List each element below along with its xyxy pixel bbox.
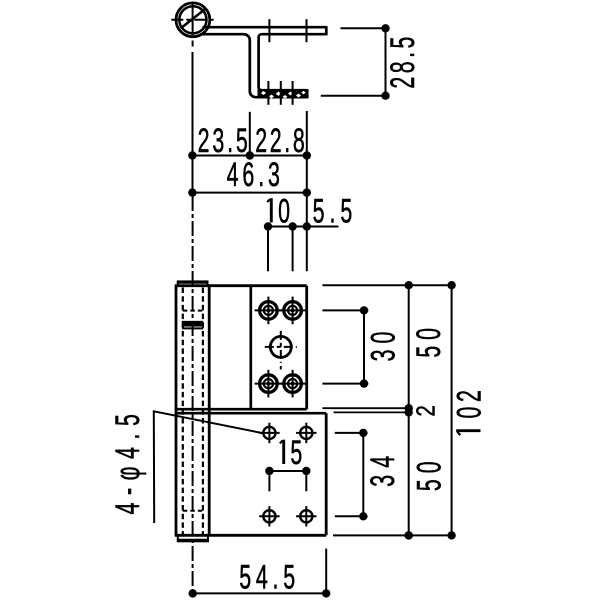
top view: hinge knuckle inner circle: [179, 6, 206, 33]
svg-text:28.5: 28.5: [384, 37, 422, 89]
upper plate countersunk hole top-left: [255, 297, 283, 325]
dim 54.5 right extension: [325, 549, 327, 594]
top view: hinge knuckle outer circle: [176, 3, 210, 37]
front view: pin head cap top: [178, 281, 208, 285]
upper plate countersunk hole bottom-left: [255, 370, 283, 398]
front view: top edge of knuckle and upper plate: [175, 284, 307, 287]
dim 30 extension bottom: [322, 383, 368, 385]
svg-text:34: 34: [364, 456, 402, 487]
top view: hole center tick on upper leaf flange at x 281: [280, 81, 282, 105]
extension below dim 10 left dot: [267, 231, 269, 272]
dim 10 dot left: [264, 222, 272, 230]
right dims: top extension line from plate top: [322, 284, 453, 286]
front view: lower plate top edge and knuckle joint line: [176, 412, 326, 415]
dim 102 dot top: [447, 281, 455, 289]
top view: vertical center line of knuckle: [192, 2, 194, 48]
dim 54.5 dot right: [322, 589, 330, 597]
front view: bottom edge of knuckle and lower plate: [175, 534, 326, 537]
dim 50 upper dot top: [405, 281, 413, 289]
dim 34 extension top: [335, 432, 368, 434]
front view: pin bottom cap thick bar: [177, 539, 209, 542]
dim 50 lower dot bottom: [405, 531, 413, 539]
center line extension from knuckle to 23.5 dim: [192, 52, 194, 193]
dim 54.5 dot left: [189, 589, 197, 597]
dim 15 extension below right: [305, 475, 307, 491]
dim 5.5 dot right: [303, 222, 311, 230]
dim 30 dot top: [360, 306, 368, 314]
upper plate countersunk hole top-right: [279, 297, 307, 325]
svg-text:30: 30: [364, 332, 402, 362]
dim 15 dimension line: [269, 470, 306, 472]
dim 46.3 dot right: [303, 188, 311, 196]
dim 34 dot bottom: [359, 512, 367, 520]
svg-text:50: 50: [410, 461, 448, 491]
dim 10/5.5 dot middle: [288, 222, 296, 230]
front view: lower plate right edge: [325, 413, 328, 535]
top view: hole center tick on lower leaf at x 306: [306, 19, 308, 42]
svg-text:2: 2: [450, 390, 488, 402]
lower plate hole top-left: [259, 423, 279, 443]
dim 46.3 dimension line: [192, 192, 306, 194]
text 15 : drawn 1 plus text 5: [280, 434, 302, 472]
text 102 rotated : drawn 1 plus text 02: [450, 390, 488, 435]
dim 30 dimension line: [363, 310, 365, 383]
dim 23.5 and 22.8 dimension line: [192, 155, 306, 157]
front view: knuckle right edge / plates left edge: [208, 286, 211, 536]
front view: line under retaining band: [182, 327, 203, 329]
dim 23.5/22.8 dot middle: [246, 151, 254, 159]
dim 46.3 dot left: [188, 188, 196, 196]
top view: lower leaf top surface line: [203, 26, 327, 29]
text 10 : drawn 1 plus text 0: [267, 192, 290, 230]
dim 34 extension bottom: [335, 515, 368, 517]
svg-text:2: 2: [411, 405, 440, 416]
front view: bend line of upper plate: [249, 286, 252, 410]
front view: hidden pin line right: [202, 288, 204, 535]
extension below dim 10 middle dot: [292, 231, 294, 272]
svg-text:54.5: 54.5: [239, 558, 295, 596]
svg-text:0: 0: [450, 407, 488, 419]
dim 15 dot right: [302, 467, 310, 475]
dim 2 extension upper: [322, 407, 408, 409]
dim 28.5 dimension line: [385, 28, 387, 95]
top view: hole center tick on upper leaf flange at x 268: [267, 81, 269, 105]
top view: hole center tick on lower leaf at x 269: [268, 19, 270, 42]
dim 50 lower bottom dot duplicate on ext: [405, 531, 413, 539]
dim 54.5 dimension line: [193, 592, 327, 594]
front view: pin bottom cap: [178, 535, 208, 541]
front view: pin head cap top thick bar: [177, 281, 209, 284]
top view: lower leaf bottom surface right portion curving into web right face then bottom flange top surface: [259, 34, 327, 90]
dim 102 dot bottom: [447, 531, 455, 539]
top view: upper leaf flange end cap: [306, 89, 309, 98]
dim 10 / 5.5 dimension line: [268, 226, 339, 228]
dim 30 dot bottom: [360, 379, 368, 387]
dim 23.5 dot left: [188, 151, 196, 159]
dim 28.5 extension line top: [341, 27, 390, 29]
dim 28.5 end dot top: [381, 24, 389, 32]
dim 15 dot left: [265, 467, 273, 475]
dim 2 extension lower: [334, 411, 409, 413]
top view: lower leaf bottom surface left portion curving into upper-leaf web left face then bottom flange bottom surface: [201, 34, 308, 97]
front view: upper plate bottom edge and knuckle joint line: [176, 408, 307, 411]
dim 2 dot lower: [405, 408, 413, 416]
bottom extension line from lower plate bottom: [333, 534, 454, 536]
leader line for 4-phi4.5 label: [154, 411, 263, 523]
dim 28.5 end dot bottom: [381, 92, 389, 100]
top view: serration marks on upper leaf flange: [258, 89, 308, 98]
svg-text:5.5: 5.5: [313, 192, 353, 230]
top view: pin slash mark: [181, 9, 206, 28]
lower plate hole bottom-right: [296, 506, 316, 526]
front view: main center line of pin axis: [192, 196, 194, 593]
dim 15 extension below left: [268, 475, 270, 491]
front view: pin retaining band: [183, 322, 203, 326]
front view: hidden pin shoulder lower: [183, 510, 203, 512]
lower plate hole bottom-left: [259, 506, 279, 526]
front view: upper plate right edge: [305, 286, 308, 410]
svg-text:4-φ4.5: 4-φ4.5: [109, 414, 147, 514]
lower plate hole top-right: [296, 423, 316, 443]
svg-text:5: 5: [290, 434, 302, 472]
dim 34 dot top: [359, 429, 367, 437]
extension line from web at x 249.8: [249, 112, 251, 158]
dim 50 upper dimension line: [408, 285, 410, 412]
dim 102 dimension line: [451, 285, 453, 535]
dim 30 extension top: [322, 309, 368, 311]
dim 34 dimension line: [362, 433, 364, 516]
dim 50 lower dimension line: [408, 412, 410, 535]
dim 22.8 dot right: [303, 151, 311, 159]
top view: hole center tick on upper leaf flange at x 293: [292, 81, 294, 105]
svg-text:23.5: 23.5: [198, 122, 248, 160]
svg-text:50: 50: [410, 328, 448, 358]
front view: hidden pin shoulder upper: [183, 310, 203, 312]
top view: horizontal center line of knuckle: [171, 19, 213, 21]
extension line column at x 306.8 from flange end down to plate: [306, 111, 308, 271]
top view: white diamond specks in serration: [261, 91, 306, 99]
front view: knuckle left edge: [175, 286, 178, 536]
svg-text:46.3: 46.3: [227, 156, 280, 194]
svg-text:22.8: 22.8: [255, 122, 305, 160]
front view: hidden pin line left: [182, 288, 184, 535]
svg-text:0: 0: [278, 192, 290, 230]
upper plate center hole: [265, 331, 297, 370]
upper plate countersunk hole bottom-right: [279, 370, 307, 398]
top view: lower leaf end cap: [325, 26, 328, 35]
dim 2 dot upper: [405, 404, 413, 412]
dim 28.5 extension line bottom: [321, 95, 389, 97]
